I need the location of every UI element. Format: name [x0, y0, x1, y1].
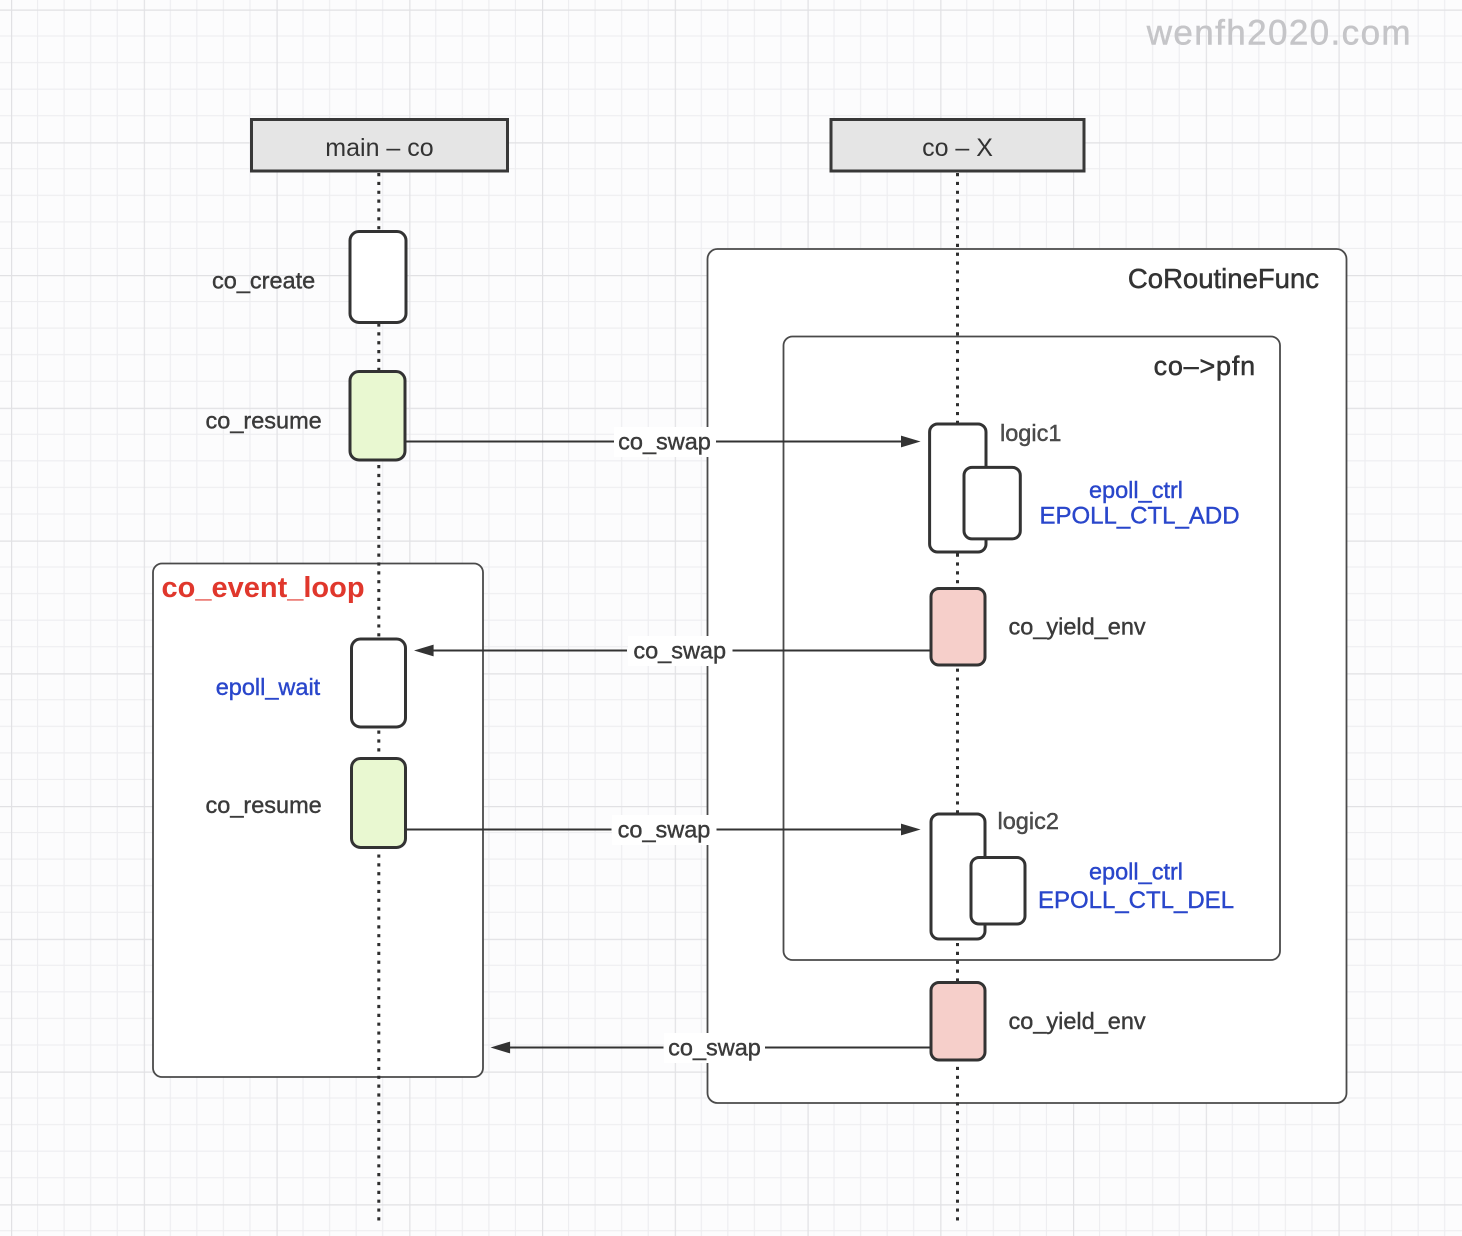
svg-text:wenfh2020.com: wenfh2020.com	[1146, 14, 1412, 53]
svg-text:co_yield_env: co_yield_env	[1009, 613, 1146, 639]
svg-text:co–>pfn: co–>pfn	[1154, 351, 1256, 381]
svg-text:CoRoutineFunc: CoRoutineFunc	[1128, 263, 1319, 294]
svg-text:co_swap: co_swap	[668, 1035, 761, 1061]
svg-text:EPOLL_CTL_ADD: EPOLL_CTL_ADD	[1039, 503, 1239, 530]
svg-text:co_swap: co_swap	[618, 817, 711, 843]
svg-text:logic2: logic2	[998, 808, 1059, 834]
svg-text:logic1: logic1	[1000, 420, 1061, 446]
svg-text:co – X: co – X	[922, 134, 993, 162]
svg-text:co_swap: co_swap	[618, 429, 711, 455]
svg-text:epoll_ctrl: epoll_ctrl	[1089, 859, 1183, 885]
svg-text:co_create: co_create	[212, 268, 315, 294]
svg-text:main – co: main – co	[325, 134, 433, 162]
svg-text:EPOLL_CTL_DEL: EPOLL_CTL_DEL	[1038, 887, 1234, 914]
svg-text:epoll_wait: epoll_wait	[216, 674, 321, 700]
svg-text:co_resume: co_resume	[206, 407, 322, 433]
svg-text:co_resume: co_resume	[206, 792, 322, 818]
svg-text:co_event_loop: co_event_loop	[162, 572, 365, 604]
svg-text:co_yield_env: co_yield_env	[1009, 1008, 1146, 1034]
svg-text:co_swap: co_swap	[633, 638, 726, 664]
svg-text:epoll_ctrl: epoll_ctrl	[1089, 477, 1183, 503]
